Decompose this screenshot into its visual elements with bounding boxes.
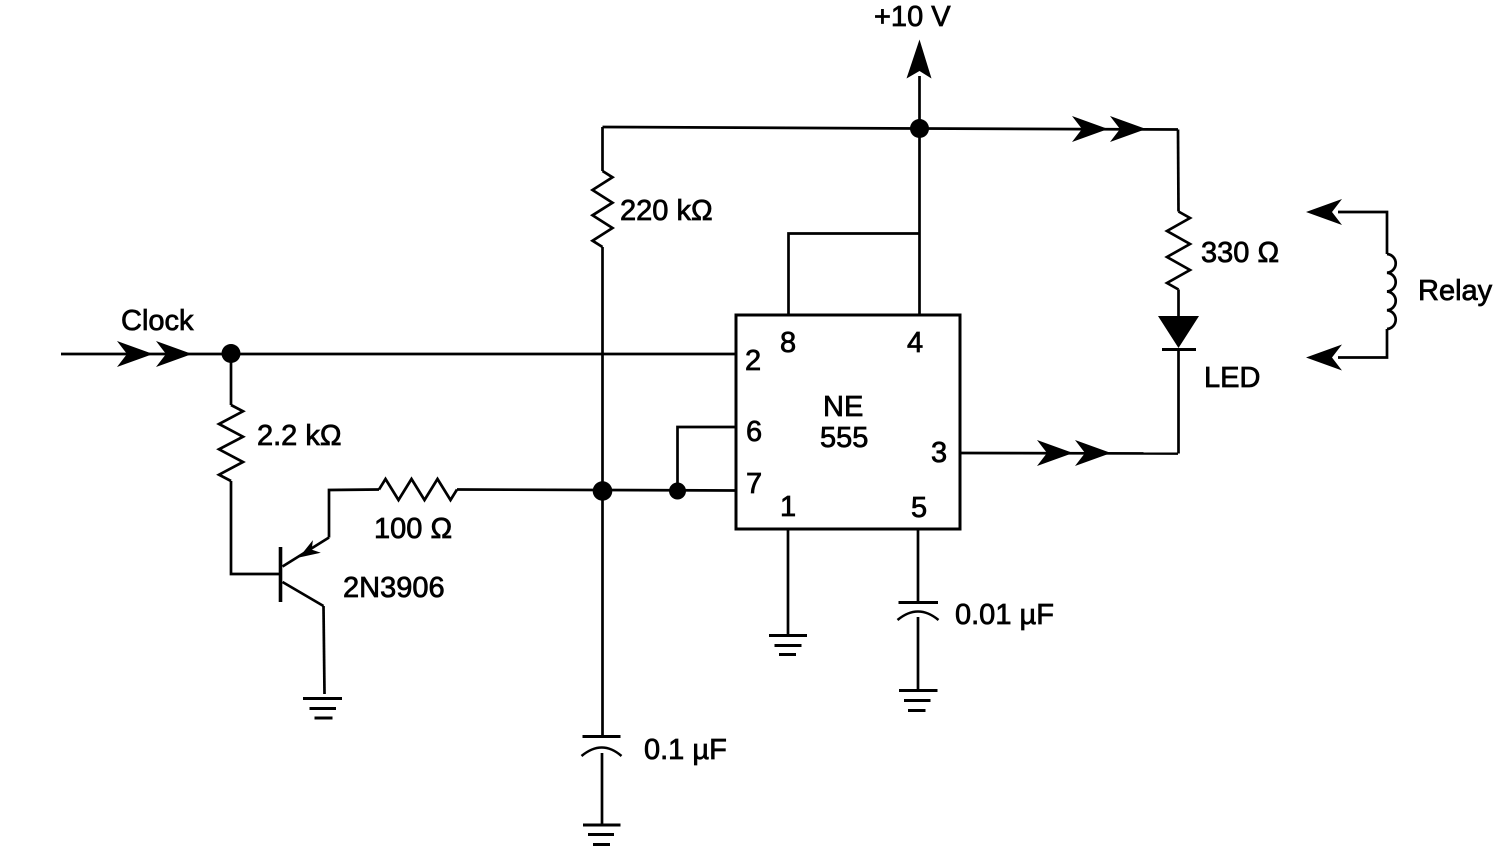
wire 220k down through pin7 node to 0.1uF xyxy=(601,247,604,737)
relay coil L1 xyxy=(1306,199,1396,371)
svg-text:7: 7 xyxy=(746,468,762,500)
svg-text:100 Ω: 100 Ω xyxy=(374,513,452,545)
wire 100 ohm to pins 6-7 net xyxy=(457,490,736,491)
transistor Q1 2N3906 (PNP) xyxy=(281,538,330,607)
svg-text:NE: NE xyxy=(823,391,863,423)
value label 220 kΩ xyxy=(620,195,713,227)
svg-text:0.1 µF: 0.1 µF xyxy=(644,734,727,766)
junction node at pin 6 bracket xyxy=(669,483,686,500)
LED D1 xyxy=(1158,316,1199,350)
svg-text:LED: LED xyxy=(1204,362,1260,394)
svg-text:Clock: Clock xyxy=(121,305,194,337)
op-amp/timer U1 NE555 box xyxy=(736,315,960,529)
pin 7 xyxy=(746,468,762,500)
resistor R1 2.2 kΩ xyxy=(219,405,243,481)
junction node at 220k / pin 7 net xyxy=(593,481,613,501)
svg-text:Relay: Relay xyxy=(1418,275,1493,307)
wire pin 1 to ground xyxy=(787,529,790,635)
svg-text:6: 6 xyxy=(746,416,762,448)
svg-text:330 Ω: 330 Ω xyxy=(1201,237,1279,269)
svg-text:8: 8 xyxy=(780,327,796,359)
ground (0.01 µF) xyxy=(899,691,938,711)
ground (pin 1) xyxy=(769,636,807,655)
wire pin 5 to 0.01uF xyxy=(917,529,920,601)
svg-text:0.01 µF: 0.01 µF xyxy=(955,599,1054,631)
value label 0.1 µF xyxy=(644,734,727,766)
wire clock node to 2.2k resistor xyxy=(230,354,233,406)
pin 6 xyxy=(746,416,762,448)
pin 2 xyxy=(745,345,761,377)
svg-text:5: 5 xyxy=(911,492,927,524)
svg-text:2N3906: 2N3906 xyxy=(343,572,445,604)
junction clock / 2.2k xyxy=(222,344,241,363)
value label 2.2 kΩ xyxy=(257,420,342,452)
label +10 V xyxy=(874,1,951,33)
value label 0.01 µF xyxy=(955,599,1054,631)
wire collector to ground xyxy=(324,606,325,694)
svg-text:4: 4 xyxy=(907,327,923,359)
resistor R3 220 kΩ xyxy=(593,171,613,247)
svg-text:555: 555 xyxy=(820,422,868,454)
ground (transistor collector) xyxy=(303,699,342,719)
node Clock label xyxy=(121,305,194,337)
capacitor C2 0.1 µF xyxy=(582,737,622,757)
wire pin 3 output with flow arrows xyxy=(960,440,1178,466)
wire 0.01uF to ground xyxy=(917,617,920,690)
pin 4 xyxy=(907,327,923,359)
svg-text:2: 2 xyxy=(745,345,761,377)
value label 100 Ω xyxy=(374,513,452,545)
power +10 V symbol xyxy=(907,40,932,130)
pin 3 xyxy=(931,437,947,469)
svg-text:220 kΩ: 220 kΩ xyxy=(620,195,713,227)
wire pin 6 bracket xyxy=(678,427,737,491)
wire pin 8 to Vcc bracket xyxy=(789,234,920,316)
wire pin 4 to +10V junction xyxy=(918,129,921,316)
label 2N3906 xyxy=(343,572,445,604)
svg-text:3: 3 xyxy=(931,437,947,469)
pin 5 xyxy=(911,492,927,524)
pin 1 xyxy=(780,491,796,523)
resistor R4 330 Ω xyxy=(1167,212,1190,290)
wire +10V rail corner down to 330 ohm xyxy=(1177,130,1180,212)
wire rail corner down to 220k xyxy=(601,127,604,171)
wire emitter to 100 ohm resistor xyxy=(329,490,379,538)
pin 8 xyxy=(780,327,796,359)
svg-text:1: 1 xyxy=(780,491,796,523)
junction +10V / pin 4 xyxy=(910,119,929,138)
ground (0.1 µF) xyxy=(583,825,621,845)
svg-text:+10 V: +10 V xyxy=(874,1,951,33)
wire 2.2k to transistor base xyxy=(231,481,279,574)
wire +10V rail (top) with flow arrows xyxy=(603,116,1179,142)
svg-text:2.2 kΩ: 2.2 kΩ xyxy=(257,420,342,452)
wire LED down to pin 3 line xyxy=(1177,350,1180,454)
wire 0.1uF to ground xyxy=(601,753,604,824)
value label 330 Ω xyxy=(1201,237,1279,269)
resistor R2 100 Ω xyxy=(379,479,457,500)
label Relay xyxy=(1418,275,1493,307)
label LED xyxy=(1204,362,1260,394)
label NE 555 xyxy=(820,391,868,454)
wire 330 ohm to LED xyxy=(1177,290,1180,317)
capacitor C1 0.01 µF xyxy=(898,603,939,621)
wire clock input with signal arrows xyxy=(61,341,736,367)
